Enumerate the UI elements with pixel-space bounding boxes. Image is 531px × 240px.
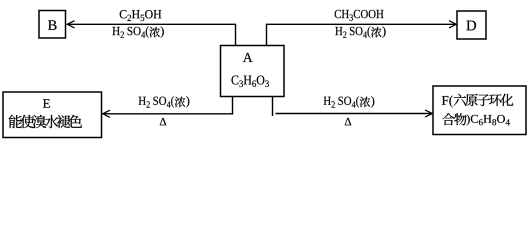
- label B: [48, 20, 57, 30]
- label delta bottom-left: [160, 118, 166, 125]
- label CH3COOH: [335, 10, 384, 21]
- label H2SO4 top-left: [112, 26, 148, 37]
- box D: [457, 11, 486, 39]
- label closeparen top-left: [161, 26, 164, 37]
- box B: [39, 11, 66, 39]
- wire A-top-right vertical: [266, 24, 268, 45]
- label closeparen bottom-left: [186, 96, 189, 107]
- label delta bottom-right: [345, 118, 351, 125]
- wire arrow line to F: [276, 113, 433, 115]
- label nong top-right: [371, 27, 381, 37]
- wire arrow line to E: [103, 113, 234, 115]
- label nong top-left: [149, 27, 159, 37]
- label closeparen top-right: [382, 26, 385, 37]
- box F: [433, 86, 526, 135]
- text neng-shi-xiu-shui-tui-se in box E: [9, 115, 82, 128]
- wire arrow line to B: [67, 23, 236, 25]
- arrowhead into B: [67, 21, 74, 28]
- label E: [43, 99, 50, 108]
- wire A-bottom-right vertical: [272, 97, 274, 117]
- label H2SO4 bottom-right: [324, 96, 359, 107]
- label A: [243, 53, 253, 62]
- label C2H5OH: [120, 10, 162, 21]
- wire A-bottom-left vertical: [232, 97, 234, 115]
- label F line2 he-wu: [442, 113, 466, 125]
- box E: [3, 92, 102, 138]
- arrowhead into F: [425, 110, 432, 117]
- label nong bottom-left: [175, 97, 185, 107]
- label closeparen bottom-right: [371, 96, 374, 107]
- label D: [466, 21, 476, 31]
- box A: [221, 46, 285, 97]
- arrowhead into E: [103, 110, 110, 117]
- label F line2 paren-C6H8O4: [467, 114, 510, 125]
- label F line1 latin F-paren: [442, 96, 453, 108]
- label H2SO4 bottom-left: [139, 96, 174, 107]
- label F line1 liu-yuan-zi-huan-hua: [454, 94, 514, 106]
- wire A-top-left vertical: [235, 24, 237, 45]
- label H2SO4 top-right: [335, 26, 370, 37]
- formula C3H6O3 in box A: [231, 76, 268, 87]
- label nong bottom-right: [360, 97, 370, 107]
- wire arrow line to D: [266, 23, 457, 25]
- arrowhead into D: [449, 21, 456, 28]
